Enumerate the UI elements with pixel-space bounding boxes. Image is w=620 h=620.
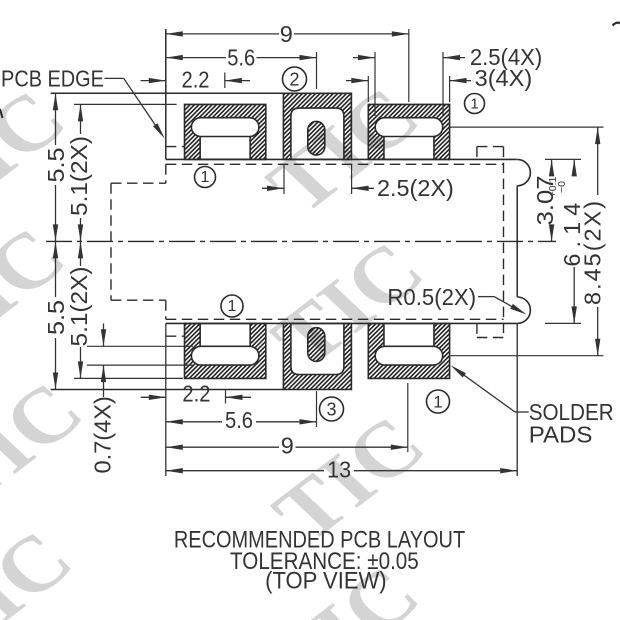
dim 2.2 bottom tick [225,389,227,404]
dim 5.6 bottom line [166,421,222,423]
body ear bottom-right vert (dashed) [476,323,478,337]
dim 5.5 bottom text [44,300,70,335]
ext pcb edge bottom right [545,322,581,324]
svg-text:2: 2 [289,70,299,90]
dim 5.1(2X) top line [80,104,82,134]
body outline right (dashed) [503,147,505,338]
pcb edge bottom under pads [166,322,517,324]
solder pad 4 (bottom left outer) [185,323,266,378]
dim 5.6 top text [227,44,255,71]
dim 6.14 tolerance [547,176,568,197]
dim 5.6 bottom text [225,407,253,434]
watermark TIC at -10.1,153.1 [0,75,85,232]
solder pad 6 (bottom right outer) [368,323,449,378]
svg-text:1: 1 [228,298,237,315]
pcb edge top under pads [166,158,517,160]
pin number 2 (top center) [283,67,307,91]
watermark TIC at -3.1,593.6 [0,515,92,620]
ext 5.1 top [74,103,177,105]
pcb edge left vertical [165,29,167,159]
watermark TIC at 343.9,629.1 [249,551,438,620]
solder pad 1 (top left outer) [185,104,266,159]
ext slot center top right [450,126,604,128]
label PADS text [529,422,593,449]
dim 2.2 top arrows [141,80,166,82]
dim 8.45(2X) line [597,127,599,195]
dim 8.45(2X) text [579,199,605,305]
watermark TIC at 343.8,150.5 [249,72,438,229]
body outline left upper (dashed) [165,164,167,183]
dim 13 text [327,457,351,483]
ext pad bottom (5.1) [74,377,183,379]
dim 2.2 bottom arrows [141,396,166,398]
stray mark top-right [613,23,620,26]
svg-text:9: 9 [281,432,294,458]
watermark TIC at 348.3,304.5 [254,226,443,383]
dim 5.1(2X) bottom text [66,267,92,347]
svg-text:13: 13 [327,457,351,483]
dim 2.5(4X) text [470,44,542,71]
svg-text:1: 1 [201,169,210,186]
solder pad 2 (top center) [283,93,351,159]
left vertical below pads [165,323,167,476]
svg-text:(TOP VIEW): (TOP VIEW) [265,566,386,593]
svg-text:−0: −0 [556,181,568,193]
svg-text:5.1(2X): 5.1(2X) [66,136,92,216]
svg-text:1: 1 [433,393,442,412]
svg-text:3: 3 [326,400,336,420]
dim 2.5(2X) extensions [283,165,285,195]
ext pcb edge top right [545,158,581,160]
dim 9 bottom line [166,446,279,448]
dim 9 top line [166,33,279,35]
svg-text:0.7(4X): 0.7(4X) [90,396,116,473]
pin number 1 (above bottom-left pad) [221,295,243,317]
dim 2.2 bottom text [182,380,210,407]
ext slot center bottom right [451,355,604,357]
pin number 1 (below bottom-right pad) [427,390,450,413]
svg-text:5.6: 5.6 [225,407,253,434]
vertical line between bumps / 13 extension [516,186,518,297]
dim 2.5(2X) text [377,175,454,201]
watermark TIC at 7.4,445.1 [0,367,102,524]
dim 5.5 top line [55,93,57,145]
ext slot top (0.7) [87,345,193,347]
dim 3.07 text [533,175,559,225]
pin number 1 (top right) [465,94,485,114]
dim 5.5 bottom line [55,241,57,297]
dim 5.5 top text [44,148,70,183]
title line 2 [230,547,419,574]
body ear top-right horiz (dashed) [477,146,504,148]
watermark TIC at -10.1,290.6 [0,212,85,369]
pin number 3 (below bottom-center pad) [320,397,344,421]
body notch left (dashed) [110,183,112,300]
body outline left lower (dashed) [165,300,167,319]
dim 5.6 top right extension [316,52,318,89]
svg-text:R0.5(2X): R0.5(2X) [387,283,476,310]
dim 6.14 text [559,197,585,267]
svg-text:PADS: PADS [529,422,593,449]
dim 3.07 line [551,159,553,173]
ext 5.5 top [51,92,166,94]
svg-text:2.2: 2.2 [181,66,209,93]
svg-text:3(4X): 3(4X) [475,65,533,91]
dim 5.6 top line [166,57,226,59]
horizontal centerline (dash-dot) [46,240,556,242]
label SOLDER text [529,399,614,426]
dim 6.14 line [573,159,575,175]
dim 2.2 top tick [224,73,226,89]
pcb edge top horizontal at 5.5 line [51,92,284,94]
dim 2.2 top text [181,66,209,93]
stray mark left edge [0,109,3,118]
pcb edge bottom horizontal at 5.5 line [51,389,284,391]
body outline top (dashed) [166,163,504,165]
body ear top-right vert (dashed) [476,147,478,160]
dim 9 top text [280,21,293,47]
svg-text:5.1(2X): 5.1(2X) [66,267,92,347]
dim 3(4X) extensions [367,76,369,102]
leader R0.5 [478,296,494,298]
svg-text:2.2: 2.2 [182,380,210,407]
pin number 1 (below top-left pad) [195,167,216,188]
dim 0.7(4X) arrows [103,323,105,346]
leader PCB EDGE [104,77,123,79]
solder pad 5 (bottom center) [283,323,351,389]
dim 9 bottom text [281,432,294,458]
svg-text:9: 9 [280,21,293,47]
dim 3(4X) arrows [346,80,368,82]
label PCB EDGE text [1,65,104,92]
leader SOLDER PADS [515,411,529,413]
svg-text:2.5(2X): 2.5(2X) [377,175,454,201]
body ear top-left stub (dashed) [166,146,185,148]
dim 5.1(2X) top text [66,136,92,216]
dim 9 top right extension [408,29,410,102]
svg-text:1: 1 [470,96,478,113]
body ear bottom-right horiz (dashed) [477,337,504,339]
body outline bottom (dashed) [166,318,504,320]
dim 13 line [166,470,324,472]
dim 5.6 bottom extension [316,391,318,427]
body ear bottom-left stub (dashed) [166,335,185,337]
title line 1 [174,526,465,553]
svg-text:PCB EDGE: PCB EDGE [1,65,104,92]
dim 3(4X) text [475,65,533,91]
svg-text:5.6: 5.6 [227,44,255,71]
dim 5.1(2X) bottom line [80,241,82,266]
title line 3 [265,566,386,593]
dim 2.5(4X) extensions [374,52,376,116]
svg-text:8.45(2X): 8.45(2X) [579,199,605,305]
ext slot bottom (0.7) [87,364,193,366]
dim 0.7(4X) text [90,396,116,473]
dim 2.5(2X) arrows [262,187,284,189]
dim 9 bottom extension [407,383,409,452]
pcb notch bump top (R0.5) [517,159,530,185]
body notch bottom (dashed) [111,299,166,301]
watermark TIC at 349.4,479.1 [255,401,444,558]
solder pad 3 (top right outer) [368,104,449,159]
pcb notch bump bottom (R0.5) [517,297,530,323]
label R0.5(2X) text [387,283,476,310]
dim 2.5(4X) arrows [353,57,375,59]
body notch top (dashed) [111,182,166,184]
